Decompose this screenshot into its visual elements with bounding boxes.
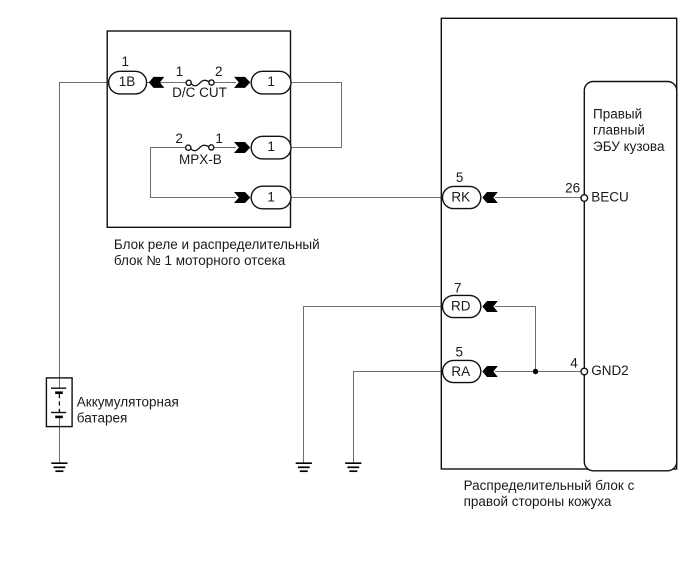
junction block box [441, 18, 676, 469]
arrow into RK [482, 192, 498, 203]
svg-text:D/C CUT: D/C CUT [172, 85, 227, 100]
svg-text:правой стороны кожуха: правой стороны кожуха [464, 494, 612, 509]
arrow into 1B [149, 77, 165, 88]
svg-text:Правый: Правый [593, 106, 642, 121]
wire connector row3 to RK [291, 197, 443, 199]
wire row3 to connector [150, 197, 236, 199]
svg-text:26: 26 [565, 180, 580, 195]
svg-text:Блок реле и распределительный: Блок реле и распределительный [114, 237, 320, 252]
svg-text:Распределительный блок с: Распределительный блок с [464, 478, 635, 493]
svg-text:1: 1 [121, 54, 129, 69]
connector RK [443, 186, 481, 208]
ground RD [296, 463, 312, 471]
svg-text:RD: RD [451, 298, 471, 313]
battery plate long top [51, 387, 66, 389]
wire fuse MPX-B to connector row2 [214, 147, 236, 149]
svg-text:GND2: GND2 [591, 363, 629, 378]
svg-text:BECU: BECU [591, 189, 629, 204]
pin 26 circle BECU [581, 195, 588, 202]
svg-text:ЭБУ кузова: ЭБУ кузова [593, 139, 665, 154]
battery dashed link [58, 394, 60, 412]
svg-text:2: 2 [175, 131, 183, 146]
arrow into RA [482, 366, 498, 377]
arrow into connector row2 [234, 142, 250, 153]
connector RA [443, 360, 481, 382]
wire 1B to fuse D/C CUT [146, 82, 186, 84]
connector 1 row1 [251, 71, 291, 94]
arrow into connector row3 [234, 192, 250, 203]
wire RD to ground [304, 307, 444, 463]
svg-text:главный: главный [593, 123, 645, 138]
connector 1B [109, 71, 147, 94]
wire fuse D/C CUT to connector row1 [214, 82, 236, 84]
svg-text:Аккумуляторная: Аккумуляторная [77, 394, 179, 409]
fuse D/C CUT [186, 80, 191, 85]
wire RD arrow to junction column [495, 307, 536, 372]
wire battery to ground [59, 417, 61, 463]
wire MPX-B left leg [151, 148, 187, 198]
svg-text:1: 1 [215, 131, 223, 146]
connector 1 row3 [251, 186, 291, 209]
svg-text:2: 2 [215, 64, 223, 79]
pin 4 circle GND2 [581, 368, 588, 375]
relay block box [107, 31, 290, 227]
battery plate short thick bottom [55, 416, 63, 419]
svg-text:4: 4 [570, 356, 578, 371]
wire RA to ground [354, 372, 444, 463]
svg-text:RK: RK [451, 189, 470, 204]
svg-text:1: 1 [267, 74, 275, 89]
arrow into RD [482, 301, 498, 312]
svg-text:батарея: батарея [77, 410, 128, 425]
svg-text:1: 1 [267, 139, 275, 154]
svg-text:MPX-B: MPX-B [179, 152, 222, 167]
svg-text:7: 7 [454, 281, 462, 296]
connector RD [443, 295, 481, 317]
svg-text:RA: RA [451, 364, 470, 379]
svg-text:5: 5 [456, 170, 464, 185]
svg-text:1: 1 [176, 64, 184, 79]
battery plate short thick top [55, 391, 63, 394]
battery box [46, 378, 72, 427]
svg-text:1B: 1B [119, 74, 136, 89]
svg-text:1: 1 [267, 189, 275, 204]
svg-text:5: 5 [456, 345, 464, 360]
junction dot [533, 369, 538, 374]
wire loop row1 to row2 [291, 83, 342, 148]
ground RA [345, 463, 361, 471]
svg-text:блок № 1 моторного отсека: блок № 1 моторного отсека [114, 253, 286, 268]
ground battery [51, 463, 67, 471]
arrow into connector row1 [234, 77, 250, 88]
wire battery column to 1B [60, 83, 109, 389]
battery plate long bottom [51, 412, 66, 414]
wire RK arrow to BECU pin [495, 197, 584, 199]
connector 1 row2 [251, 136, 291, 159]
fuse MPX-B [186, 145, 191, 150]
ECU rounded box [584, 82, 676, 471]
wire RA arrow to GND2 pin [495, 371, 584, 373]
